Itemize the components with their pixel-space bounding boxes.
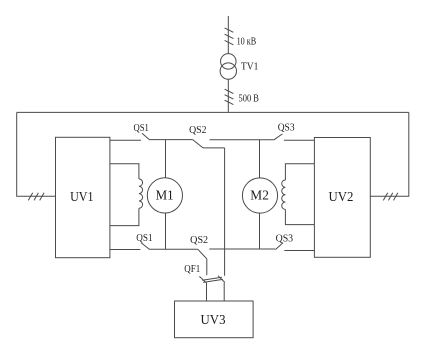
wire QS3 to UV2 top (284, 139, 315, 141)
wire QS2 shelf (203, 147, 225, 149)
wire M1 upper (165, 140, 167, 178)
motor M1 circle (147, 178, 182, 213)
svg-text:M2: M2 (250, 188, 269, 203)
svg-text:UV1: UV1 (70, 189, 93, 204)
wire QS1 top right to QS2 (150, 139, 193, 141)
transformer TV1 (220, 54, 236, 80)
wire QF1 left upper (206, 259, 208, 275)
left cable hatch (28, 193, 44, 201)
switch QS1 bottom blade (141, 243, 149, 250)
wire feeder between transformer and bus (227, 79, 229, 112)
svg-text:QS2: QS2 (190, 235, 208, 246)
switch QS1 top blade (142, 133, 150, 140)
svg-text:QF1: QF1 (184, 264, 200, 275)
wire right drop (370, 112, 409, 196)
wire QS1 top left (110, 139, 141, 141)
wire QS2 to QS3 top (210, 139, 274, 141)
box UV3 (175, 301, 254, 338)
wire center vertical (224, 148, 226, 276)
wire QF1 right lower (223, 283, 225, 301)
svg-text:QS1: QS1 (134, 123, 149, 134)
box UV1 (56, 137, 110, 257)
right cable hatch (383, 193, 398, 201)
line marks 500V side (225, 89, 234, 104)
wire M2 lower (259, 213, 261, 249)
wire UV2 choke bottom (285, 209, 314, 224)
wire UV2 choke top (285, 164, 314, 180)
svg-text:QS3: QS3 (278, 123, 295, 134)
inductor UV2 choke (282, 180, 286, 209)
wire QS1 bottom left (110, 249, 140, 251)
svg-text:10 кВ: 10 кВ (237, 37, 257, 48)
svg-text:500 В: 500 В (239, 93, 260, 104)
wire UV1 choke bottom (110, 208, 139, 225)
switch QS3 top blade (274, 134, 283, 140)
inductor UV1 choke (139, 179, 143, 208)
wire feeder 10kV vertical upper (227, 16, 229, 54)
box UV2 (314, 138, 370, 258)
svg-text:TV1: TV1 (241, 61, 259, 72)
wire QS2 to QS3 bottom (209, 248, 275, 250)
switch QS2 bottom blade (198, 249, 207, 259)
breaker QF1 left contact tick (199, 276, 206, 282)
svg-text:UV3: UV3 (201, 312, 226, 327)
switch QS2 top blade (193, 140, 203, 148)
wire QS3 to UV2 bottom (284, 250, 314, 252)
wire QF1 left lower (206, 283, 208, 301)
svg-text:QS2: QS2 (189, 125, 206, 136)
wire QS1 bottom right (150, 248, 198, 250)
breaker QF1 right contact tick (218, 276, 225, 283)
wire UV1 choke top (110, 164, 139, 179)
switch QS3 bottom blade (275, 243, 283, 250)
svg-text:UV2: UV2 (329, 189, 354, 204)
wire M1 lower (165, 213, 167, 249)
svg-text:M1: M1 (156, 188, 174, 203)
motor M2 circle (242, 178, 277, 213)
wire left drop (17, 112, 56, 196)
line marks 10kV side (225, 28, 234, 45)
wire 500V bus (17, 111, 409, 113)
breaker QF1 bridge bar 1 (202, 277, 222, 280)
svg-text:QS3: QS3 (276, 234, 294, 245)
svg-text:QS1: QS1 (136, 233, 152, 244)
breaker QF1 bridge bar 2 (203, 279, 223, 282)
wire M2 upper (259, 140, 261, 178)
